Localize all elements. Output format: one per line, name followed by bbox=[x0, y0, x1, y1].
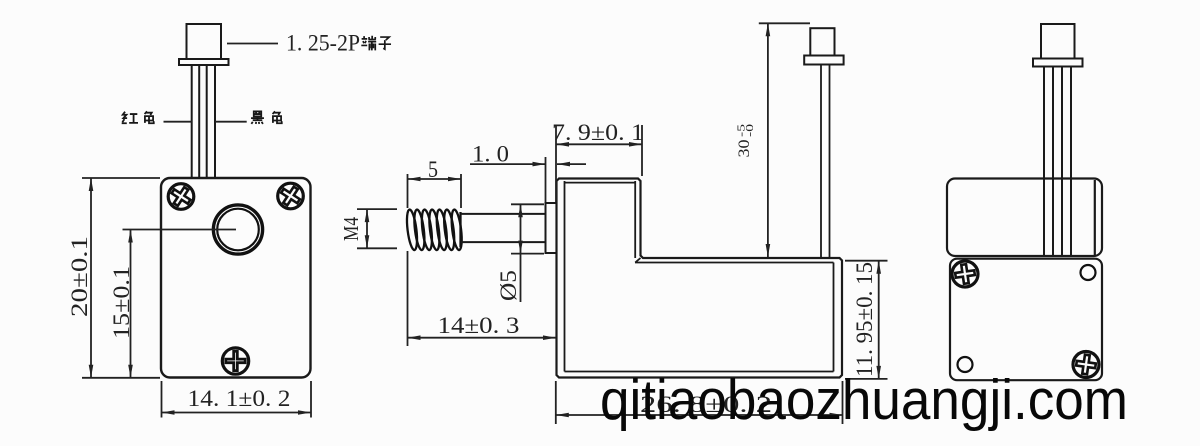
dim 20±0.1 line and arrows bbox=[90, 178, 92, 378]
rear hole bottom-left bbox=[958, 357, 973, 372]
dim 15±0.1 text bbox=[109, 266, 134, 339]
front view connector housing bbox=[179, 24, 229, 65]
dim 11.95±0.15 text bbox=[852, 262, 877, 377]
leader line red bbox=[164, 121, 193, 123]
screw top-right bbox=[277, 183, 304, 210]
svg-text:20±0.1: 20±0.1 bbox=[67, 236, 92, 317]
side view wire pair bbox=[821, 65, 830, 258]
dim 14±0.3 line bbox=[408, 337, 557, 339]
svg-text:14. 1±0. 2: 14. 1±0. 2 bbox=[188, 386, 291, 411]
svg-text:qitiaobaozhuangji.com: qitiaobaozhuangji.com bbox=[600, 368, 1128, 432]
svg-text:1. 25-2P: 1. 25-2P bbox=[286, 31, 360, 56]
svg-text:30: 30 bbox=[736, 140, 753, 158]
dim 20±0.1 extension lines bbox=[82, 178, 160, 378]
label 1.25-2P terminal text bbox=[286, 31, 360, 56]
rear screw bottom-right bbox=[1073, 352, 1099, 378]
dim M4 arrow line bbox=[366, 209, 368, 248]
svg-text:-0: -0 bbox=[744, 123, 756, 137]
front view lead wires bbox=[192, 65, 215, 178]
side view L bracket inner wall lines bbox=[565, 181, 834, 372]
svg-text:5: 5 bbox=[428, 157, 438, 182]
watermark bbox=[600, 368, 1128, 432]
dim 14.1±0.2 extension lines bbox=[162, 381, 312, 418]
dim 14.1±0.2 line bbox=[162, 412, 312, 414]
dim 11.95±0.15 extension lines bbox=[845, 261, 888, 379]
rear view lead wires bbox=[1044, 67, 1071, 257]
dim 30 line bbox=[767, 23, 769, 257]
dim 1.0 leader and arrows bbox=[470, 163, 586, 165]
rear view coil housing bbox=[947, 179, 1102, 257]
dim M4 extension lines bbox=[357, 209, 397, 248]
dim 7.9±0.1 line bbox=[556, 143, 642, 145]
dim 1.0 text bbox=[472, 142, 509, 167]
dim 20±0.1 text bbox=[67, 236, 92, 317]
dim dia5 text bbox=[496, 270, 521, 301]
dim 30 -5/-0 text bbox=[736, 123, 757, 157]
rear screw top-left bbox=[952, 261, 978, 287]
rear hole top-right bbox=[1081, 265, 1096, 280]
svg-text:14±0. 3: 14±0. 3 bbox=[438, 313, 520, 338]
dim 14±0.3 text bbox=[438, 313, 520, 338]
label black wire 黑色 bbox=[251, 111, 282, 124]
side view L bracket outer bbox=[557, 179, 843, 378]
leader line black bbox=[215, 121, 247, 123]
dim 5 line bbox=[408, 178, 462, 180]
svg-text:7. 9±0. 1: 7. 9±0. 1 bbox=[552, 120, 644, 145]
dim 26.8±0.2 line bbox=[556, 414, 843, 416]
svg-text:M4: M4 bbox=[339, 217, 363, 241]
side view connector housing bbox=[804, 28, 843, 64]
leader line terminal label bbox=[227, 43, 278, 45]
dim 14.1±0.2 text bbox=[188, 386, 291, 411]
dim M4 text bbox=[339, 217, 363, 241]
dim 26.8±0.2 text bbox=[640, 392, 772, 417]
dim 15±0.1 pointer line bbox=[123, 230, 237, 378]
CJK 端 bbox=[361, 36, 376, 51]
svg-text:Ø5: Ø5 bbox=[496, 270, 521, 301]
rear view connector housing bbox=[1033, 24, 1083, 67]
dim 11.95±0.15 line bbox=[878, 261, 880, 379]
dim dia5 line bbox=[520, 204, 522, 302]
screw bottom center bbox=[222, 348, 248, 374]
rear view base plate bbox=[950, 259, 1102, 381]
side view collar bbox=[546, 203, 557, 253]
plunger hole circles bbox=[213, 205, 262, 254]
dim dia5 extension lines bbox=[511, 204, 544, 253]
dim 14±0.3 left extension already drawn above thread; lower part bbox=[407, 251, 409, 346]
dim 30 tolerance top extension bbox=[759, 22, 810, 24]
dim 5 extension lines bbox=[408, 174, 462, 208]
dim 26.8±0.2 extension lines bbox=[556, 381, 843, 424]
side view M4 thread bbox=[405, 209, 463, 251]
dim 7.9±0.1 extension lines bbox=[556, 125, 642, 202]
front view body bbox=[161, 178, 311, 378]
svg-text:11. 95±0. 15: 11. 95±0. 15 bbox=[852, 262, 877, 377]
svg-text:1. 0: 1. 0 bbox=[472, 142, 509, 167]
dim 7.9±0.1 text bbox=[552, 120, 644, 145]
label red wire 红色 bbox=[122, 111, 154, 123]
side view shaft bbox=[461, 214, 546, 242]
CJK 子 bbox=[379, 37, 391, 49]
screw top-left bbox=[168, 183, 195, 210]
dim 5 text bbox=[428, 157, 438, 182]
dim 1.0 extension line bbox=[545, 157, 547, 202]
svg-text:15±0.1: 15±0.1 bbox=[109, 266, 134, 339]
